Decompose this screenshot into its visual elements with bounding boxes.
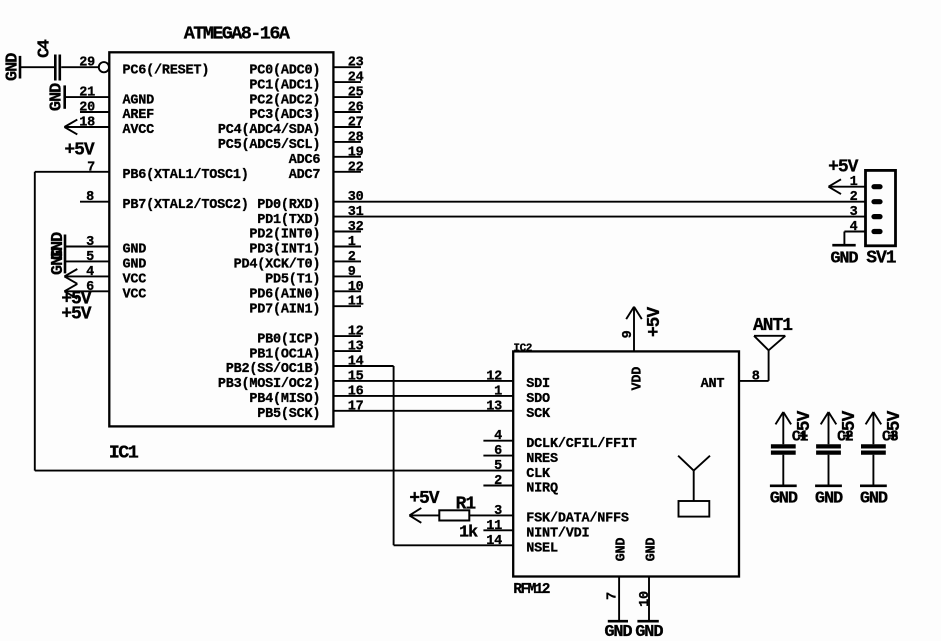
svg-text:NRES: NRES: [526, 452, 558, 467]
svg-text:PC0(ADC0): PC0(ADC0): [249, 63, 320, 78]
svg-text:PB4(MISO): PB4(MISO): [249, 392, 320, 407]
svg-text:PD7(AIN1): PD7(AIN1): [249, 302, 320, 317]
svg-text:18: 18: [79, 116, 95, 131]
svg-text:PC6(/RESET): PC6(/RESET): [123, 63, 210, 78]
svg-text:VDD: VDD: [630, 367, 645, 391]
svg-text:NSEL: NSEL: [526, 542, 558, 557]
svg-text:28: 28: [348, 130, 364, 145]
svg-text:PD5(T1): PD5(T1): [265, 273, 320, 288]
svg-text:3: 3: [86, 235, 94, 250]
svg-text:29: 29: [79, 56, 95, 71]
svg-text:ANT: ANT: [701, 377, 725, 392]
svg-text:11: 11: [348, 295, 364, 310]
svg-text:ADC7: ADC7: [289, 168, 321, 183]
svg-text:IC2: IC2: [513, 343, 532, 355]
svg-text:4: 4: [850, 220, 858, 235]
svg-text:+5V: +5V: [64, 140, 95, 160]
svg-text:5: 5: [494, 459, 502, 474]
svg-text:PC2(ADC2): PC2(ADC2): [249, 93, 320, 108]
svg-text:8: 8: [752, 369, 760, 384]
svg-text:VCC: VCC: [123, 288, 147, 303]
svg-text:SV1: SV1: [866, 249, 897, 269]
svg-text:4: 4: [86, 265, 94, 280]
svg-text:14: 14: [348, 355, 364, 370]
svg-text:PB1(OC1A): PB1(OC1A): [249, 347, 320, 362]
svg-text:C1: C1: [792, 429, 809, 446]
svg-text:12: 12: [486, 369, 502, 384]
svg-text:NINT/VDI: NINT/VDI: [526, 527, 589, 542]
svg-text:9: 9: [621, 330, 636, 338]
svg-text:14: 14: [486, 534, 502, 549]
svg-text:26: 26: [348, 101, 364, 116]
svg-text:PB6(XTAL1/TOSC1): PB6(XTAL1/TOSC1): [123, 168, 249, 183]
svg-text:C4: C4: [35, 39, 54, 58]
svg-text:R1: R1: [456, 495, 477, 515]
svg-text:PC4(ADC4/SDA): PC4(ADC4/SDA): [218, 123, 320, 138]
svg-text:ADC6: ADC6: [289, 153, 321, 168]
svg-text:27: 27: [348, 116, 364, 131]
svg-text:PD1(TXD): PD1(TXD): [257, 213, 320, 228]
svg-text:6: 6: [494, 444, 502, 459]
svg-text:C2: C2: [837, 429, 854, 446]
svg-text:SDO: SDO: [526, 392, 550, 407]
svg-text:PD6(AIN0): PD6(AIN0): [249, 288, 320, 303]
svg-text:AREF: AREF: [123, 108, 155, 123]
svg-text:24: 24: [348, 71, 364, 86]
svg-text:8: 8: [86, 190, 94, 205]
svg-text:13: 13: [348, 340, 364, 355]
svg-text:32: 32: [348, 220, 364, 235]
svg-text:PB3(MOSI/OC2): PB3(MOSI/OC2): [218, 377, 320, 392]
svg-text:20: 20: [79, 101, 95, 116]
svg-text:PB5(SCK): PB5(SCK): [257, 407, 320, 422]
svg-text:PB7(XTAL2/TOSC2): PB7(XTAL2/TOSC2): [123, 198, 249, 213]
svg-text:IC1: IC1: [109, 442, 139, 463]
svg-text:GND: GND: [3, 53, 22, 81]
svg-text:ATMEGA8-16A: ATMEGA8-16A: [184, 24, 291, 45]
svg-text:GND: GND: [123, 243, 147, 258]
svg-text:DCLK/CFIL/FFIT: DCLK/CFIL/FFIT: [526, 437, 636, 452]
svg-text:FSK/DATA/NFFS: FSK/DATA/NFFS: [526, 512, 629, 527]
svg-text:7: 7: [87, 160, 95, 175]
svg-text:16: 16: [348, 384, 364, 399]
svg-text:GND: GND: [48, 83, 67, 111]
svg-text:12: 12: [348, 325, 364, 340]
svg-text:31: 31: [348, 205, 364, 220]
svg-text:GND: GND: [815, 490, 843, 509]
svg-text:17: 17: [348, 399, 364, 414]
svg-text:GND: GND: [860, 490, 888, 509]
svg-text:15: 15: [348, 369, 364, 384]
svg-text:SDI: SDI: [526, 377, 550, 392]
svg-text:PD0(RXD): PD0(RXD): [257, 198, 320, 213]
svg-text:PB2(SS/OC1B): PB2(SS/OC1B): [226, 362, 321, 377]
svg-text:23: 23: [348, 56, 364, 71]
svg-text:7: 7: [606, 592, 621, 600]
svg-text:RFM12: RFM12: [513, 582, 549, 598]
svg-text:10: 10: [638, 591, 653, 607]
svg-text:PC3(ADC3): PC3(ADC3): [249, 108, 320, 123]
svg-text:C3: C3: [882, 429, 899, 446]
svg-text:GND: GND: [615, 538, 630, 562]
svg-text:PD3(INT1): PD3(INT1): [249, 243, 320, 258]
svg-text:GND: GND: [770, 490, 798, 509]
svg-text:5: 5: [86, 250, 94, 265]
svg-text:ANT1: ANT1: [753, 316, 793, 336]
svg-text:+5V: +5V: [409, 489, 440, 509]
svg-text:25: 25: [348, 86, 364, 101]
svg-text:4: 4: [494, 429, 502, 444]
svg-text:SCK: SCK: [526, 407, 551, 422]
svg-text:VCC: VCC: [123, 273, 147, 288]
svg-text:2: 2: [850, 190, 858, 205]
svg-text:AGND: AGND: [123, 93, 155, 108]
svg-text:1: 1: [494, 384, 502, 399]
svg-text:3: 3: [494, 504, 502, 519]
svg-text:2: 2: [348, 250, 356, 265]
svg-text:3: 3: [850, 205, 858, 220]
svg-text:GND: GND: [635, 623, 663, 641]
svg-text:1k: 1k: [459, 523, 478, 542]
svg-text:PD2(INT0): PD2(INT0): [249, 228, 320, 243]
svg-text:21: 21: [79, 86, 95, 101]
svg-text:10: 10: [348, 280, 364, 295]
svg-text:AVCC: AVCC: [123, 123, 155, 138]
svg-text:1: 1: [348, 235, 356, 250]
svg-text:+5V: +5V: [61, 304, 92, 324]
svg-text:13: 13: [486, 399, 502, 414]
svg-text:2: 2: [494, 474, 502, 489]
svg-text:GND: GND: [645, 538, 660, 562]
svg-text:9: 9: [348, 265, 356, 280]
svg-text:GND: GND: [49, 247, 68, 275]
svg-text:30: 30: [348, 190, 364, 205]
svg-text:CLK: CLK: [526, 467, 551, 482]
svg-text:GND: GND: [123, 258, 147, 273]
svg-text:+5V: +5V: [645, 307, 665, 338]
svg-text:PB0(ICP): PB0(ICP): [257, 332, 320, 347]
svg-text:GND: GND: [830, 249, 858, 268]
svg-text:GND: GND: [604, 623, 632, 641]
svg-text:11: 11: [486, 519, 502, 534]
svg-text:PD4(XCK/T0): PD4(XCK/T0): [234, 258, 321, 273]
svg-text:PC1(ADC1): PC1(ADC1): [249, 78, 320, 93]
svg-text:1: 1: [850, 175, 858, 190]
svg-text:22: 22: [348, 160, 364, 175]
svg-text:NIRQ: NIRQ: [526, 482, 558, 497]
svg-text:PC5(ADC5/SCL): PC5(ADC5/SCL): [218, 138, 320, 153]
svg-text:19: 19: [348, 145, 364, 160]
